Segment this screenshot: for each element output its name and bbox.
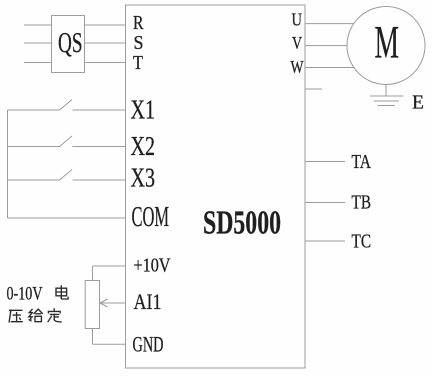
svg-text:+10V: +10V: [134, 255, 171, 277]
wire left bus: [7, 110, 9, 218]
motor M circle: [347, 7, 425, 85]
svg-text:R: R: [133, 12, 144, 34]
switch X3: [8, 170, 126, 181]
svg-text:TC: TC: [352, 232, 372, 253]
svg-text:U: U: [292, 10, 303, 30]
svg-text:0-10V: 0-10V: [7, 285, 43, 305]
wire COM: [8, 217, 126, 219]
inverter U1 SD5000 box: [126, 5, 306, 368]
svg-text:TA: TA: [352, 152, 372, 173]
wire T input: [24, 62, 52, 64]
wire W output: [305, 67, 354, 69]
svg-text:X1: X1: [131, 94, 156, 125]
svg-text:X3: X3: [131, 162, 156, 193]
svg-text:W: W: [291, 57, 304, 77]
wire R input: [24, 24, 52, 26]
glyph dian 电: [56, 286, 68, 299]
breaker QS: [52, 16, 85, 73]
glyph ding 定: [48, 309, 61, 322]
wire QS to R: [85, 24, 126, 26]
switch X1: [8, 100, 126, 111]
wire QS to T: [85, 62, 126, 64]
svg-text:V: V: [292, 33, 302, 53]
wire S input: [24, 42, 52, 44]
wire QS to S: [85, 42, 126, 44]
wire motor to earth: [385, 85, 387, 96]
svg-text:AI1: AI1: [134, 289, 162, 314]
svg-text:M: M: [375, 17, 400, 69]
svg-text:T: T: [133, 52, 143, 74]
wire V output: [305, 45, 347, 47]
wire TC: [305, 240, 345, 242]
wire TA: [305, 161, 345, 163]
wire AI1 wiper: [100, 299, 126, 307]
svg-text:X2: X2: [131, 130, 156, 161]
svg-text:E: E: [412, 92, 424, 114]
svg-text:GND: GND: [133, 332, 164, 357]
svg-text:S: S: [134, 32, 144, 54]
switch X2: [8, 136, 126, 147]
wire inverter ground stub: [305, 88, 322, 90]
potentiometer RP1: [85, 281, 99, 329]
wire U output: [305, 23, 354, 25]
glyph ya 压: [9, 310, 22, 322]
wire TB: [305, 202, 345, 204]
wire GND: [93, 329, 126, 345]
ground E symbol: [370, 96, 404, 106]
svg-text:SD5000: SD5000: [203, 205, 281, 242]
glyph gei 给: [29, 309, 43, 322]
svg-text:QS: QS: [58, 28, 83, 59]
svg-text:TB: TB: [352, 193, 372, 214]
svg-text:COM: COM: [132, 202, 170, 233]
wire +10V: [93, 266, 126, 281]
